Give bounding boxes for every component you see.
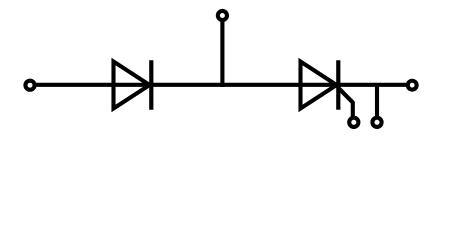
thyristor Q1 triangle [301, 62, 337, 109]
wire auxiliary cathode lead [375, 85, 379, 117]
diode D1 cathode bar [149, 60, 153, 110]
terminal circle right (cathode) [408, 81, 417, 90]
diode D1 triangle [114, 62, 150, 109]
wire vertical to top terminal [220, 20, 224, 87]
wire gate lead G [339, 88, 353, 117]
terminal circle aux cathode [372, 118, 381, 127]
terminal circle left (anode) [25, 81, 34, 90]
wire main horizontal A-to-K [35, 83, 407, 87]
terminal circle top [218, 11, 227, 20]
thyristor Q1 cathode bar [336, 60, 340, 110]
terminal circle gate [349, 118, 358, 127]
